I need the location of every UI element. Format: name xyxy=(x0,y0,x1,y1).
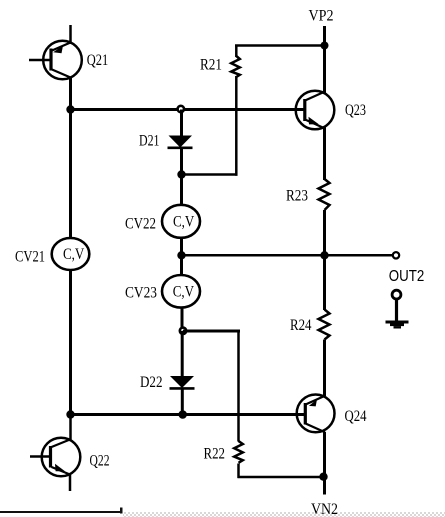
transistor Q24 xyxy=(297,395,335,433)
label CV23 xyxy=(125,284,157,301)
wire CV22 bottom to OUT2 node xyxy=(180,238,183,257)
label Q24 xyxy=(345,408,367,425)
wire bottom horizontal bus to Q24 base xyxy=(69,413,305,416)
svg-text:C,V: C,V xyxy=(63,246,85,263)
wire Q22 collector from bottom bus xyxy=(69,415,72,441)
svg-text:Q24: Q24 xyxy=(345,408,367,425)
label D21 xyxy=(139,132,160,149)
wire probe stem xyxy=(395,299,398,321)
label D22 xyxy=(140,374,163,391)
svg-text:C,V: C,V xyxy=(173,214,195,231)
wire R23 bottom to OUT2 node xyxy=(323,210,326,256)
label VP2 xyxy=(309,8,334,25)
label R23 xyxy=(286,188,308,205)
wire VP2 stub xyxy=(323,26,326,46)
transistor Q22 xyxy=(30,438,80,491)
label R24 xyxy=(290,317,312,334)
svg-text:Q21: Q21 xyxy=(87,52,109,69)
label CV22 xyxy=(125,216,156,233)
node junction VN2/R22 xyxy=(319,473,327,481)
node VP2 junction xyxy=(321,42,329,50)
label R21 xyxy=(200,57,222,74)
node junction D21/R21/CV22 xyxy=(177,170,185,178)
node junction left x top bus xyxy=(66,105,74,113)
wire top horizontal bus to Q23 base xyxy=(69,108,305,111)
diode D21 xyxy=(168,136,193,148)
resistor R24 xyxy=(319,310,330,340)
label CV21 xyxy=(15,249,45,266)
node junction mid bottom bus xyxy=(178,410,187,419)
svg-text:R24: R24 xyxy=(290,317,312,334)
wire horizontal from D21 cathode node to R21 lead xyxy=(180,173,237,176)
wire Q23 collector to VP2 xyxy=(323,46,326,94)
svg-text:C,V: C,V xyxy=(173,284,195,301)
label R22 xyxy=(204,446,226,463)
label OUT2 xyxy=(389,268,425,285)
wire left vertical upper (Q21 collector to CV21) xyxy=(69,77,72,239)
svg-text:VP2: VP2 xyxy=(309,8,334,25)
wire VN2 stub xyxy=(323,477,326,495)
node junction CV22/CV23/OUT2 line xyxy=(177,251,185,259)
wire D22 cathode to bottom bus xyxy=(181,388,184,415)
wire left vertical lower (CV21 to bottom bus) xyxy=(69,270,72,416)
label VN2 xyxy=(311,501,338,517)
wire top-left horizontal from R21 top to VP2 rail xyxy=(235,44,326,47)
svg-text:R22: R22 xyxy=(204,446,226,463)
node junction OUT2/right rail xyxy=(320,251,328,259)
node junction CV23/R22 branch (ring) xyxy=(180,328,186,334)
wire Q23 emitter to R23 xyxy=(323,128,326,181)
edge line bottom-left xyxy=(0,508,123,514)
terminal probe circle under OUT2 xyxy=(392,290,401,299)
wire CV23 bottom to lower ring node xyxy=(181,307,184,331)
svg-text:CV23: CV23 xyxy=(125,284,157,301)
wire R22 top lead vertical xyxy=(237,331,240,442)
svg-text:R21: R21 xyxy=(200,57,222,74)
edge dither band bottom xyxy=(123,512,445,517)
svg-text:VN2: VN2 xyxy=(311,501,338,517)
svg-text:CV21: CV21 xyxy=(15,249,45,266)
wire middle vertical to D22 xyxy=(181,331,184,377)
transistor Q21 xyxy=(29,25,82,79)
label Q22 xyxy=(90,453,110,470)
diode D22 xyxy=(170,376,195,388)
node junction mid top bus (ring) xyxy=(178,106,184,112)
svg-text:R23: R23 xyxy=(286,188,308,205)
wire OUT2 horizontal line xyxy=(182,254,393,257)
wire Q24 collector to VN2 node xyxy=(323,432,326,477)
wire R22 bottom horizontal to VN2 node xyxy=(238,476,325,479)
resistor R23 xyxy=(319,179,330,210)
resistor R22 xyxy=(234,441,243,463)
wire horizontal to R22 branch xyxy=(183,330,240,333)
wire OUT2 node to R24 xyxy=(323,255,326,310)
wire node to CV23 top xyxy=(180,255,183,276)
label Q23 xyxy=(345,102,366,119)
svg-text:OUT2: OUT2 xyxy=(389,268,425,285)
wire R22 bottom lead xyxy=(237,464,240,479)
transistor Q23 xyxy=(296,91,335,130)
svg-text:CV22: CV22 xyxy=(125,216,156,233)
wire R24 bottom to Q24 emitter xyxy=(323,340,326,397)
svg-text:Q23: Q23 xyxy=(345,102,366,119)
terminal OUT2 open circle xyxy=(393,252,399,258)
svg-text:Q22: Q22 xyxy=(90,453,110,470)
node junction left bottom bus xyxy=(66,410,74,418)
label Q21 xyxy=(87,52,109,69)
svg-text:D21: D21 xyxy=(139,132,160,149)
CV source CV22 xyxy=(162,205,200,238)
wire D21 cathode to node xyxy=(180,148,183,176)
CV source CV21 xyxy=(52,238,90,270)
svg-text:D22: D22 xyxy=(140,374,163,391)
CV source CV23 xyxy=(162,275,200,308)
resistor R21 xyxy=(231,46,240,78)
wire R21 bottom lead down to y=174 xyxy=(235,76,238,176)
wire node to CV22 top xyxy=(180,175,183,207)
ground xyxy=(386,321,409,329)
wire middle vertical from top bus to D21 xyxy=(180,110,183,137)
